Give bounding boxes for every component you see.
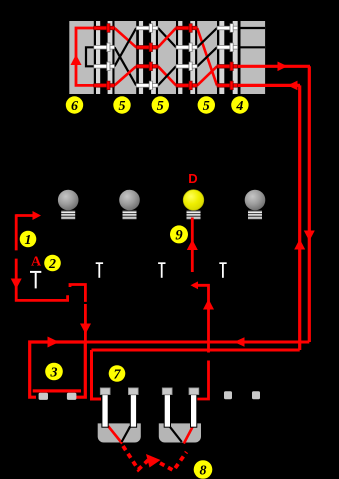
bell 1 pin 2 bbox=[128, 388, 138, 427]
wire left bracket rows 2-3 bbox=[86, 47, 94, 66]
svg-text:2: 2 bbox=[48, 257, 56, 272]
channel 1 rails bbox=[96, 21, 112, 94]
plug ch3-r1 (red) bbox=[176, 24, 197, 33]
arrow on sound wave bbox=[146, 454, 161, 468]
wire branch to relay 2 bbox=[193, 285, 209, 399]
plug ch2-r1 (white) bbox=[136, 24, 158, 33]
wire lamp D feed bbox=[191, 218, 194, 273]
node 5c bbox=[198, 96, 215, 114]
wire ch1-r4 to ch2-r3 bbox=[115, 66, 137, 85]
terminal channel 2 slot bbox=[136, 21, 158, 94]
svg-text:6: 6 bbox=[71, 99, 78, 114]
svg-text:5: 5 bbox=[157, 99, 164, 114]
push button 2 bbox=[96, 262, 103, 278]
node 5a bbox=[113, 96, 130, 114]
wire ch3-r4 to ch4-r3 bbox=[197, 66, 217, 85]
push button 3 bbox=[158, 262, 165, 278]
node 8 bbox=[194, 460, 213, 479]
lamp bulb 3 (lit, D) bbox=[183, 190, 204, 220]
node 4 bbox=[231, 96, 248, 114]
svg-text:5: 5 bbox=[203, 99, 210, 114]
push button 4 bbox=[219, 262, 226, 278]
arrow right to lamp 1 bbox=[33, 211, 42, 220]
wire ch3-r1 to ch4-r4 bbox=[197, 28, 217, 85]
plug ch1-r3 (white) bbox=[94, 62, 115, 71]
spare terminal 2 bbox=[252, 391, 260, 399]
plug ch4-r1 (white) bbox=[217, 24, 238, 33]
wire bus H2 bbox=[92, 350, 300, 399]
wire ch3-r2 to ch4-r1 bbox=[197, 28, 217, 47]
transformer terminal right bbox=[67, 393, 77, 400]
node 7 bbox=[109, 365, 126, 382]
wire phase drop at node 1 bbox=[16, 214, 85, 342]
sound wave dashed left bbox=[123, 446, 152, 470]
sound wave dashed right bbox=[160, 452, 187, 471]
wire return up right inner bbox=[298, 85, 301, 350]
transformer T1 outline bbox=[30, 342, 86, 397]
plug ch3-r4 (red) bbox=[176, 81, 197, 90]
bell 2 base bbox=[159, 423, 201, 442]
wire ch2-r4 to ch3-r3 bbox=[158, 66, 176, 85]
svg-text:3: 3 bbox=[50, 366, 58, 381]
svg-text:5: 5 bbox=[119, 99, 126, 114]
plug ch1-r2 (white) bbox=[94, 43, 115, 52]
plug ch4-r3 (red) bbox=[217, 62, 238, 71]
terminal channel 3 slot bbox=[176, 21, 197, 94]
wire ch2-r2 to ch3-r1 bbox=[158, 28, 176, 47]
svg-text:D: D bbox=[188, 171, 197, 186]
arrow down above transformer bbox=[80, 324, 91, 335]
svg-text:9: 9 bbox=[175, 228, 182, 244]
arrow up on branch bbox=[203, 299, 214, 310]
svg-text:A: A bbox=[31, 255, 42, 270]
terminal channel 1 slot bbox=[94, 21, 115, 94]
lamp bulb 4 bbox=[245, 190, 266, 220]
plug ch1-r4 (red) bbox=[94, 81, 115, 90]
wire stub arrow near lamp 1 bbox=[16, 214, 34, 217]
plug ch4-r4 (red) bbox=[217, 81, 238, 90]
junction box panel bbox=[69, 21, 265, 94]
wire ch3-r3 to ch4-r2 bbox=[197, 47, 217, 66]
bell 1 coil red bbox=[108, 426, 122, 443]
wire output row1 bbox=[238, 27, 265, 29]
svg-text:7: 7 bbox=[114, 368, 122, 383]
arrow left on bus H1 bbox=[234, 337, 245, 347]
push button A (pressed) bbox=[30, 271, 41, 289]
wire ch1-r3 to ch2-r1 bbox=[115, 28, 137, 66]
node 5b bbox=[152, 96, 169, 114]
plug ch2-r2 (red) bbox=[136, 43, 158, 52]
arrow up on left loop bbox=[71, 55, 82, 66]
node 1 bbox=[20, 231, 37, 248]
node 9 bbox=[170, 225, 188, 243]
plug ch1-r1 (red) bbox=[94, 24, 115, 33]
transformer terminal left bbox=[39, 393, 48, 400]
bell 1 base bbox=[98, 423, 141, 442]
arrow left on row4 output bbox=[288, 81, 298, 91]
channel 3 rails bbox=[178, 21, 195, 94]
bell 1 coil black bbox=[122, 426, 131, 442]
transformer secondary bar bbox=[33, 389, 81, 392]
arrow down on outer vertical bbox=[304, 231, 315, 242]
plug ch3-r2 (white) bbox=[176, 43, 197, 52]
svg-text:4: 4 bbox=[235, 99, 243, 114]
plug ch4-r2 (white) bbox=[217, 43, 238, 52]
arrow right on row3 output bbox=[278, 62, 288, 72]
plug ch2-r4 (white) bbox=[136, 81, 158, 90]
plug ch3-r3 (white) bbox=[176, 62, 197, 71]
bell 2 pin 2 bbox=[189, 388, 199, 427]
arrow left small on branch bbox=[191, 281, 199, 289]
arrow down on node1 drop bbox=[11, 279, 22, 290]
bell 2 coil black bbox=[169, 426, 181, 442]
arrow right on transformer top bbox=[48, 337, 60, 348]
channel 2 rails bbox=[139, 21, 156, 94]
svg-text:1: 1 bbox=[25, 233, 32, 248]
node 2 bbox=[44, 255, 61, 272]
lamp bulb 1 bbox=[58, 190, 79, 220]
bell 2 pin 1 bbox=[162, 388, 172, 427]
bell 2 coil red bbox=[184, 425, 194, 443]
svg-text:8: 8 bbox=[200, 464, 207, 479]
arrow up on lamp D feed bbox=[187, 240, 198, 251]
node 3 bbox=[45, 363, 63, 381]
wire bus H1 bbox=[29, 341, 309, 344]
arrow up on inner vertical bbox=[294, 239, 305, 250]
wire output row4 live bbox=[238, 84, 300, 87]
terminal channel 4 slot bbox=[217, 21, 241, 94]
spare terminal 1 bbox=[224, 391, 232, 399]
wire ch2-r3 to ch3-r4 bbox=[158, 66, 176, 85]
lamp bulb 2 bbox=[119, 190, 140, 220]
wire ch2-r1 to ch3-r2 bbox=[158, 28, 176, 47]
plug ch2-r3 (red) bbox=[136, 62, 158, 71]
channel 4 rails bbox=[219, 21, 238, 94]
node 6 bbox=[66, 96, 83, 114]
bell 1 pin 1 bbox=[100, 388, 110, 427]
wire left loop of junction box bbox=[76, 28, 94, 85]
wire output row2 bbox=[238, 46, 265, 48]
right output block divider bbox=[238, 21, 241, 94]
wire live down right outer bbox=[308, 66, 311, 342]
wire ch1-r1 to ch2-r2 bbox=[115, 28, 137, 47]
wire ch1-r2 to ch2-r4 bbox=[115, 47, 137, 85]
wire output row3 live bbox=[238, 65, 310, 68]
